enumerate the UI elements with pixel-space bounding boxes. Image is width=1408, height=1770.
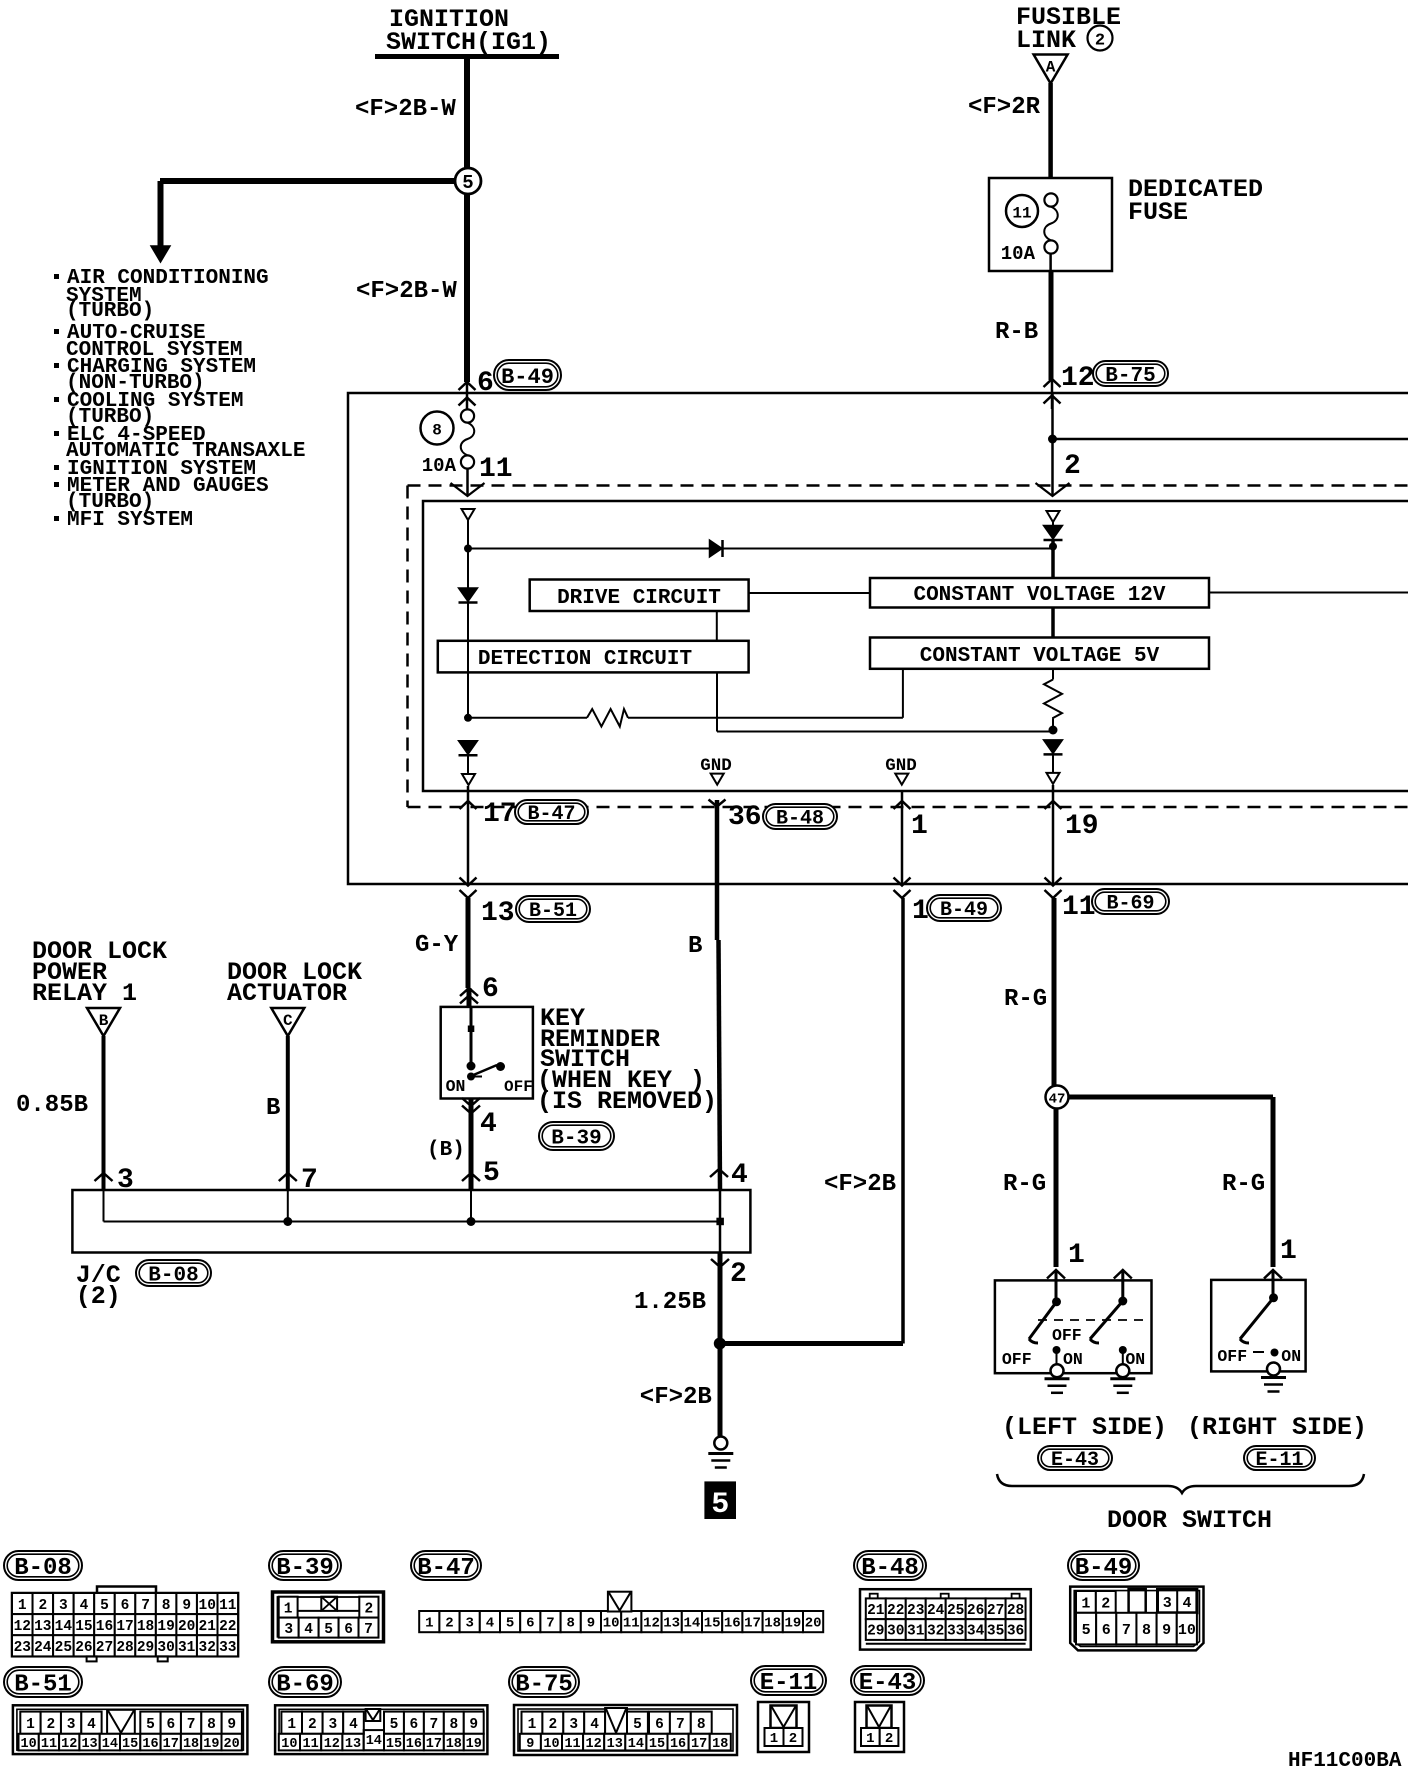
svg-text:15: 15	[386, 1737, 402, 1752]
svg-text:12: 12	[1061, 363, 1095, 394]
svg-text:4: 4	[480, 1109, 497, 1140]
switch pivot	[467, 1062, 476, 1071]
wire J/C pin 2 down	[718, 1253, 723, 1438]
wire R-G to left door switch	[1054, 1109, 1059, 1268]
svg-text:29: 29	[137, 1640, 154, 1656]
exit arrows at ECU bottom	[894, 878, 911, 886]
terminal A triangle	[1034, 55, 1068, 84]
connector B-47 pinout	[419, 1611, 439, 1632]
svg-text:17: 17	[426, 1737, 442, 1752]
svg-text:OFF: OFF	[1052, 1326, 1082, 1345]
wire pin36 down thick	[715, 800, 720, 884]
svg-text:2: 2	[1095, 32, 1105, 51]
connector label B-51	[4, 1667, 82, 1697]
wire pin17 down	[467, 786, 470, 884]
svg-text:47: 47	[1049, 1092, 1066, 1108]
svg-text:RELAY 1: RELAY 1	[32, 979, 137, 1008]
svg-text:13: 13	[34, 1619, 51, 1635]
svg-text:7: 7	[364, 1622, 373, 1638]
svg-text:12: 12	[586, 1737, 602, 1752]
arrow out of J/C pin 2	[711, 1259, 729, 1267]
connector arrows pin 6	[459, 382, 476, 390]
svg-text:CONSTANT VOLTAGE 12V: CONSTANT VOLTAGE 12V	[913, 584, 1165, 607]
wire branch to systems list	[160, 178, 455, 184]
svg-text:B-49: B-49	[940, 899, 988, 922]
svg-text:6: 6	[344, 1622, 353, 1638]
svg-text:HF11C00BA: HF11C00BA	[1288, 1750, 1402, 1770]
fuse 11 circled	[1006, 195, 1038, 227]
svg-text:8: 8	[207, 1717, 216, 1733]
svg-text:1: 1	[284, 1601, 293, 1617]
svg-text:13: 13	[81, 1737, 97, 1752]
svg-text:18: 18	[183, 1737, 199, 1752]
left switch ON contact 1	[1053, 1346, 1061, 1354]
svg-text:7: 7	[676, 1717, 685, 1733]
svg-text:5: 5	[711, 1488, 729, 1522]
connector label B-48	[854, 1551, 926, 1580]
svg-text:5: 5	[483, 1158, 500, 1189]
svg-text:9: 9	[182, 1598, 191, 1614]
wire 12V output to right edge	[1209, 592, 1408, 594]
svg-text:(B): (B)	[427, 1139, 465, 1162]
ECU dashed inner module box	[408, 484, 1408, 487]
node left top junction	[464, 545, 472, 553]
svg-text:12: 12	[324, 1737, 340, 1752]
connector ref B-48	[763, 804, 837, 829]
svg-text:21: 21	[199, 1619, 217, 1635]
exit arrows at ECU bottom	[1045, 878, 1062, 886]
arrow pin19	[1045, 801, 1062, 809]
arrow into J/C pin 7	[279, 1173, 297, 1181]
svg-text:10A: 10A	[422, 455, 457, 477]
svg-text:5: 5	[390, 1717, 399, 1733]
svg-text:LINK: LINK	[1016, 26, 1076, 55]
svg-text:2: 2	[789, 1731, 797, 1747]
svg-text:24: 24	[34, 1640, 52, 1656]
svg-text:B-39: B-39	[276, 1555, 334, 1582]
svg-text:B-51: B-51	[529, 900, 577, 923]
left switch pole1 lever	[1029, 1302, 1057, 1339]
wire right rail to 12V box	[1051, 541, 1055, 579]
systems list	[54, 274, 59, 279]
svg-text:DETECTION CIRCUIT: DETECTION CIRCUIT	[478, 648, 692, 671]
svg-text:B-48: B-48	[861, 1555, 919, 1582]
svg-text:2: 2	[46, 1717, 55, 1733]
svg-text:36: 36	[1007, 1624, 1024, 1640]
GND pin triangle 2	[895, 774, 908, 785]
svg-text:5: 5	[146, 1717, 155, 1733]
svg-text:<F>2R: <F>2R	[968, 94, 1041, 121]
wire key reminder to J/C	[469, 1099, 474, 1191]
svg-text:11: 11	[1012, 205, 1031, 223]
svg-text:2: 2	[1101, 1595, 1110, 1612]
right switch ON link dash	[1253, 1351, 1264, 1353]
switch ON contact	[467, 1073, 475, 1081]
svg-text:1: 1	[866, 1731, 874, 1747]
svg-text:1: 1	[425, 1616, 433, 1632]
svg-text:B: B	[688, 933, 702, 960]
svg-text:31: 31	[907, 1624, 925, 1640]
svg-text:25: 25	[947, 1603, 964, 1619]
arrowhead down	[151, 246, 170, 262]
wire ignition switch to junction 5	[464, 59, 470, 181]
svg-text:13: 13	[663, 1616, 680, 1632]
svg-text:15: 15	[75, 1619, 92, 1635]
svg-text:17: 17	[744, 1616, 761, 1632]
svg-text:1: 1	[287, 1717, 296, 1733]
svg-text:19: 19	[157, 1619, 174, 1635]
diode D5 right lower	[1044, 740, 1063, 754]
svg-text:34: 34	[967, 1624, 985, 1640]
svg-text:27: 27	[987, 1603, 1004, 1619]
connector label E-11	[751, 1666, 826, 1695]
svg-text:R-G: R-G	[1004, 986, 1047, 1013]
svg-text:28: 28	[1007, 1603, 1024, 1619]
svg-text:11: 11	[1062, 892, 1096, 923]
key reminder switch box	[441, 1007, 533, 1099]
wire from B-49 pin 1 down	[901, 898, 905, 1344]
constant voltage 12V box	[870, 578, 1209, 608]
svg-text:15: 15	[122, 1737, 138, 1752]
svg-text:6: 6	[526, 1616, 534, 1632]
svg-text:16: 16	[724, 1616, 741, 1632]
detection circuit box	[438, 641, 749, 673]
svg-text:27: 27	[96, 1640, 113, 1656]
door switch brace	[997, 1474, 1364, 1493]
fuse 8 circled	[421, 412, 454, 445]
junction 47 circled	[1046, 1086, 1069, 1109]
svg-text:14: 14	[55, 1619, 73, 1635]
svg-text:2: 2	[308, 1717, 317, 1733]
wire R-G from ECU pin11 down	[1052, 898, 1057, 1086]
svg-text:2: 2	[885, 1731, 893, 1747]
left door switch box	[995, 1280, 1152, 1373]
svg-text:3: 3	[284, 1622, 293, 1638]
svg-text:4: 4	[304, 1622, 313, 1638]
wire resistor to 5V box	[902, 669, 904, 718]
node pin12 branch	[1048, 435, 1057, 444]
svg-text:6: 6	[121, 1598, 130, 1614]
wire G-Y ECU pin13 to key reminder switch	[466, 898, 471, 988]
connector ref B-51	[516, 896, 590, 922]
svg-text:9: 9	[227, 1717, 236, 1733]
wire pin11 input down	[467, 520, 469, 549]
constant voltage 5V box	[870, 638, 1209, 669]
svg-text:22: 22	[219, 1619, 236, 1635]
svg-text:14: 14	[683, 1616, 700, 1632]
wire junction5 to ECU pin 6	[464, 194, 470, 382]
svg-text:10: 10	[21, 1737, 37, 1752]
svg-text:1: 1	[18, 1598, 27, 1614]
svg-text:1: 1	[912, 896, 929, 927]
svg-text:DOOR SWITCH: DOOR SWITCH	[1107, 1506, 1272, 1535]
svg-text:19: 19	[784, 1616, 801, 1632]
connector label B-08	[4, 1551, 82, 1580]
left switch pole2 pivot	[1118, 1297, 1127, 1306]
ECU outer box	[348, 393, 1408, 884]
J/C internal wires	[103, 1190, 105, 1222]
svg-text:12: 12	[14, 1619, 31, 1635]
svg-text:24: 24	[927, 1603, 945, 1619]
svg-text:30: 30	[157, 1640, 174, 1656]
svg-text:8: 8	[162, 1598, 171, 1614]
svg-text:12: 12	[643, 1616, 660, 1632]
svg-text:4: 4	[80, 1598, 89, 1614]
svg-text:C: C	[283, 1012, 293, 1030]
svg-text:17: 17	[116, 1619, 133, 1635]
wire detection to right rail	[717, 731, 1053, 733]
terminal B triangle	[87, 1008, 120, 1036]
svg-text:7: 7	[429, 1717, 438, 1733]
svg-text:OFF: OFF	[504, 1078, 533, 1096]
svg-text:4: 4	[87, 1717, 96, 1733]
wire node to right edge	[1053, 438, 1408, 441]
svg-text:20: 20	[224, 1737, 240, 1752]
svg-text:7: 7	[1122, 1622, 1131, 1639]
left switch ON contact 2	[1119, 1346, 1127, 1354]
connector label B-39	[269, 1551, 341, 1580]
svg-text:<F>2B-W: <F>2B-W	[356, 278, 457, 305]
svg-text:7: 7	[141, 1598, 150, 1614]
svg-text:15: 15	[704, 1616, 721, 1632]
wire pin12 to node	[1051, 393, 1054, 496]
wire top horizontal with diode	[468, 548, 1053, 550]
svg-text:11: 11	[41, 1737, 57, 1752]
svg-text:16: 16	[406, 1737, 422, 1752]
svg-text:<F>2B: <F>2B	[824, 1171, 896, 1198]
arrow into left door switch	[1047, 1270, 1065, 1279]
connector B-49 pinout	[1070, 1587, 1203, 1651]
exit arrows at ECU bottom	[460, 878, 477, 886]
diode D4 right top	[1044, 526, 1063, 540]
svg-text:4: 4	[349, 1717, 358, 1733]
arrow into J/C pin 3	[95, 1173, 113, 1181]
wire B from ECU pin36 to J/C pin 4	[715, 884, 720, 940]
svg-text:(LEFT SIDE): (LEFT SIDE)	[1002, 1413, 1167, 1442]
svg-text:ON: ON	[1063, 1350, 1083, 1369]
wire B through J/C	[719, 1190, 722, 1253]
wire branch to B-49 pin1 wire	[720, 1341, 903, 1346]
svg-text:FUSE: FUSE	[1128, 198, 1188, 227]
svg-text:<F>2B-W: <F>2B-W	[355, 96, 456, 123]
svg-text:19: 19	[203, 1737, 219, 1752]
connector E-11 pinout	[758, 1702, 809, 1752]
arrows into key reminder pin 6	[460, 988, 478, 996]
svg-text:B-39: B-39	[551, 1128, 601, 1151]
svg-text:4: 4	[1182, 1595, 1191, 1612]
svg-text:23: 23	[14, 1640, 31, 1656]
svg-text:17: 17	[691, 1737, 707, 1752]
svg-text:(TURBO): (TURBO)	[66, 300, 154, 323]
svg-text:B: B	[266, 1095, 280, 1122]
svg-text:30: 30	[887, 1624, 904, 1640]
svg-text:11: 11	[623, 1616, 640, 1632]
svg-text:B-48: B-48	[776, 808, 824, 831]
svg-text:33: 33	[219, 1640, 236, 1656]
ECU inner circuit box	[423, 501, 1408, 791]
svg-text:1: 1	[1280, 1236, 1297, 1267]
wire fusible link to dedicated fuse	[1048, 83, 1053, 178]
svg-text:5: 5	[324, 1622, 333, 1638]
svg-text:(RIGHT SIDE): (RIGHT SIDE)	[1187, 1413, 1367, 1442]
connector B-69 pinout	[275, 1705, 487, 1754]
svg-text:20: 20	[805, 1616, 822, 1632]
input pin triangle left	[462, 509, 475, 520]
connector B-75 pinout	[514, 1705, 737, 1755]
ground ref boxed 5	[704, 1481, 736, 1519]
svg-text:10: 10	[281, 1737, 297, 1752]
svg-text:3: 3	[1163, 1595, 1172, 1612]
GND pin triangle 1	[711, 774, 724, 785]
svg-text:5: 5	[633, 1717, 642, 1733]
svg-text:CONSTANT VOLTAGE 5V: CONSTANT VOLTAGE 5V	[920, 645, 1160, 668]
arrows out of key reminder pin 4	[462, 1098, 480, 1106]
svg-text:2: 2	[730, 1259, 747, 1290]
output pin triangle right lower	[1047, 773, 1060, 784]
svg-text:17: 17	[163, 1737, 179, 1752]
svg-text:18: 18	[764, 1616, 781, 1632]
right switch lever	[1240, 1298, 1274, 1339]
right switch ground	[1267, 1363, 1280, 1376]
svg-text:B-47: B-47	[417, 1555, 475, 1582]
svg-text:33: 33	[947, 1624, 964, 1640]
wire fuse to dashed box pin 11	[466, 469, 469, 497]
right door switch box	[1211, 1280, 1305, 1372]
svg-text:B-08: B-08	[14, 1555, 72, 1582]
connector ref B-47	[515, 800, 588, 824]
svg-text:7: 7	[187, 1717, 196, 1733]
svg-text:14: 14	[366, 1734, 382, 1749]
arrow pin1	[894, 801, 911, 809]
svg-text:8: 8	[449, 1717, 458, 1733]
svg-text:2: 2	[365, 1601, 374, 1617]
svg-text:B-47: B-47	[527, 803, 575, 826]
connector label B-47	[411, 1551, 481, 1580]
svg-text:B-51: B-51	[14, 1672, 72, 1699]
wire through detection circuit	[467, 641, 469, 673]
svg-text:8: 8	[566, 1616, 574, 1632]
svg-text:2: 2	[445, 1616, 453, 1632]
diode D2 left branch down	[459, 588, 478, 602]
svg-text:3: 3	[59, 1598, 68, 1614]
svg-text:5: 5	[1082, 1622, 1091, 1639]
connector B-51 pinout	[13, 1705, 248, 1754]
svg-text:26: 26	[75, 1640, 92, 1656]
svg-text:5: 5	[100, 1598, 109, 1614]
svg-text:13: 13	[607, 1737, 623, 1752]
svg-text:E-11: E-11	[1255, 1449, 1303, 1472]
junction 5 circled	[455, 168, 481, 194]
wire 12V to 5V box	[1051, 608, 1055, 638]
J/C bus junction dots	[283, 1217, 292, 1226]
svg-text:10A: 10A	[1001, 243, 1036, 265]
switch common wire	[470, 1007, 473, 1066]
svg-text:6: 6	[166, 1717, 175, 1733]
svg-text:11: 11	[302, 1737, 318, 1752]
svg-text:16: 16	[670, 1737, 686, 1752]
svg-text:OFF: OFF	[1002, 1350, 1032, 1369]
svg-text:12: 12	[61, 1737, 77, 1752]
svg-text:10: 10	[603, 1616, 620, 1632]
svg-text:3: 3	[329, 1717, 338, 1733]
svg-text:16: 16	[96, 1619, 113, 1635]
left switch ground 1	[1051, 1364, 1064, 1377]
svg-text:9: 9	[469, 1717, 478, 1733]
svg-text:19: 19	[1065, 811, 1099, 842]
svg-text:1: 1	[1068, 1240, 1085, 1271]
svg-text:6: 6	[1102, 1622, 1111, 1639]
svg-text:9: 9	[526, 1737, 534, 1752]
svg-text:B-75: B-75	[1105, 365, 1155, 388]
svg-text:2: 2	[1064, 451, 1081, 482]
connector ref B-49 lower	[927, 895, 1001, 921]
svg-text:10: 10	[1178, 1622, 1196, 1639]
output pin triangle left lower	[462, 774, 475, 785]
left switch mechanical link dashed	[1038, 1319, 1146, 1321]
connector arrows pin 12	[1044, 379, 1061, 387]
svg-text:20: 20	[178, 1619, 195, 1635]
svg-text:1.25B: 1.25B	[634, 1289, 706, 1316]
wire pin19 down	[1052, 785, 1055, 884]
svg-text:MFI SYSTEM: MFI SYSTEM	[67, 509, 193, 532]
svg-text:SWITCH(IG1): SWITCH(IG1)	[386, 28, 551, 57]
svg-text:21: 21	[867, 1603, 885, 1619]
svg-text:3: 3	[117, 1165, 134, 1196]
svg-text:4: 4	[590, 1717, 599, 1733]
wire relay to J/C pin 3	[102, 1036, 106, 1190]
arrow into J/C pin 4	[710, 1169, 728, 1177]
svg-text:R-B: R-B	[995, 319, 1038, 346]
svg-text:8: 8	[1142, 1622, 1151, 1639]
fuse symbol ECU 10A	[461, 409, 474, 422]
node ground branch junction	[714, 1338, 726, 1350]
svg-text:5: 5	[506, 1616, 514, 1632]
junction connector box J/C	[72, 1190, 750, 1253]
svg-text:2: 2	[548, 1717, 557, 1733]
svg-text:7: 7	[546, 1616, 554, 1632]
svg-text:7: 7	[301, 1165, 318, 1196]
svg-text:B-75: B-75	[515, 1672, 573, 1699]
terminal C triangle	[271, 1008, 304, 1036]
svg-text:3: 3	[465, 1616, 473, 1632]
svg-text:10: 10	[543, 1737, 559, 1752]
connector ref B-08	[136, 1260, 211, 1286]
right switch ON contact	[1271, 1349, 1279, 1357]
wire drive to constant voltage 12V	[749, 592, 870, 594]
diode D3 left lower	[459, 741, 478, 755]
svg-text:29: 29	[867, 1624, 884, 1640]
wire left branch through detection circuit	[467, 549, 469, 641]
connector arrow pin 2 into module	[1036, 483, 1070, 496]
connector B-48 pinout	[860, 1589, 1031, 1649]
svg-text:R-G: R-G	[1003, 1171, 1046, 1198]
svg-text:2: 2	[38, 1598, 47, 1614]
svg-text:32: 32	[927, 1624, 944, 1640]
svg-text:ACTUATOR: ACTUATOR	[227, 979, 347, 1008]
svg-text:11: 11	[479, 454, 513, 485]
switch lever to OFF	[471, 1065, 497, 1076]
svg-text:22: 22	[887, 1603, 904, 1619]
right switch pivot	[1269, 1293, 1278, 1302]
node resistor left junction	[464, 714, 472, 722]
svg-text:E-43: E-43	[859, 1670, 917, 1697]
svg-text:3: 3	[67, 1717, 76, 1733]
arrow into right door switch	[1264, 1270, 1282, 1279]
wire actuator to J/C pin 7	[286, 1036, 290, 1190]
connector E-43 pinout	[855, 1702, 904, 1752]
arrow pin17	[460, 801, 477, 809]
wire dedicated fuse to ECU pin 12, R-B	[1049, 254, 1052, 271]
